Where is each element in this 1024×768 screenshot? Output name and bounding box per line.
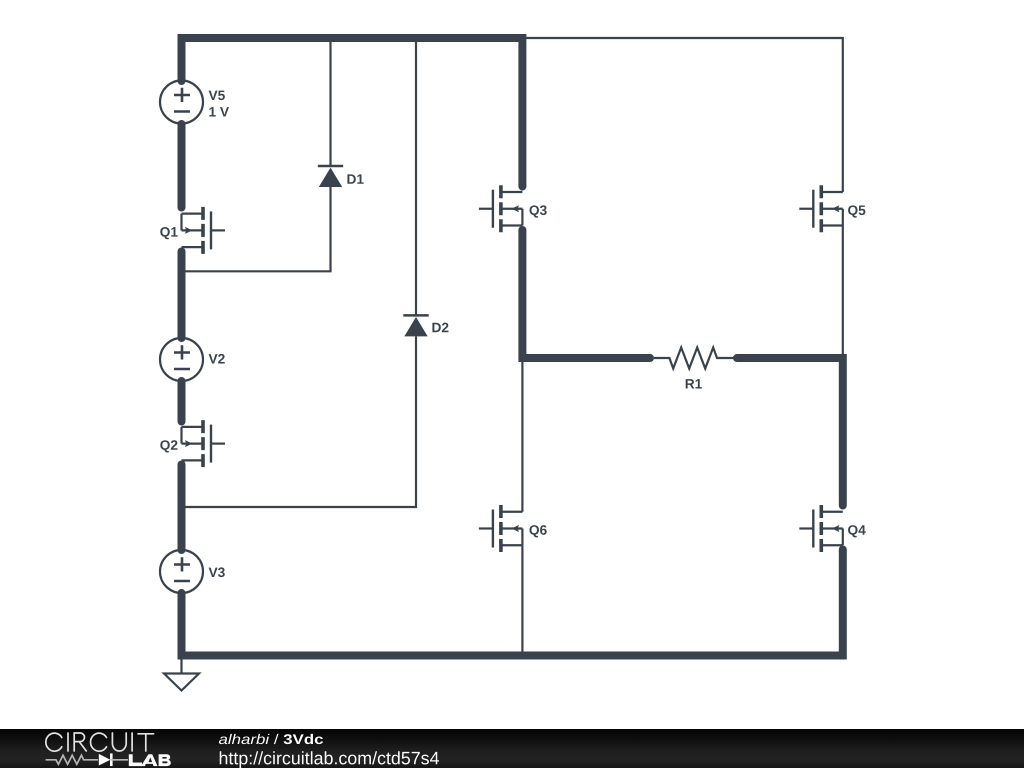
resistor R1 — [654, 348, 734, 389]
wire Q2 source to V3 top — [178, 465, 186, 551]
name label Q3 — [529, 205, 546, 217]
transistor Q6 — [479, 505, 547, 552]
wire Q5 source to R1 right corner — [842, 226, 844, 359]
polarity marks + / - — [174, 345, 190, 369]
wire Q3 source to R1 left terminal — [522, 230, 650, 358]
transistor Q2 — [160, 420, 225, 467]
name label V2 — [209, 354, 225, 364]
name label Q1 — [160, 227, 177, 239]
transistor Q1 — [160, 207, 225, 254]
wire V5 bottom to Q1 drain — [178, 124, 186, 208]
CircuitLab logo CIRCUIT — [46, 733, 154, 751]
wire top rail tap to D2 cathode — [415, 38, 417, 315]
voltage source V2 — [160, 338, 225, 381]
name label Q4 — [848, 525, 866, 537]
CircuitLab logo squiggle resistor — [46, 755, 98, 764]
transistor Q4 — [799, 505, 865, 552]
wire R1 right terminal to Q4 drain — [737, 358, 843, 506]
polarity marks + / - — [174, 557, 190, 581]
transistor Q3 — [479, 185, 547, 232]
footer bar — [0, 729, 1024, 768]
footer author / title — [219, 734, 323, 744]
voltage source V5 — [160, 81, 229, 124]
wire top rail tap to D1 cathode — [329, 38, 331, 166]
diode D1 — [318, 166, 364, 187]
wire D2 anode to Q2 source node — [182, 336, 417, 507]
name label Q5 — [848, 205, 865, 217]
name label Q6 — [529, 525, 546, 537]
name label V5 — [209, 91, 225, 101]
polarity marks + / - — [174, 88, 190, 112]
wire Q1 source to V2 top — [178, 252, 186, 339]
value label 1 V — [209, 107, 229, 116]
footer url — [220, 751, 439, 768]
wire V3 bottom to bottom rail to right corner — [182, 550, 843, 656]
ground — [164, 656, 199, 691]
name label Q2 — [160, 440, 177, 452]
CircuitLab logo diode — [99, 754, 111, 766]
name label R1 — [686, 379, 702, 388]
voltage source V3 — [160, 550, 225, 593]
name label V3 — [209, 567, 225, 577]
name label D2 — [432, 323, 448, 333]
name label D1 — [347, 174, 363, 183]
wire V2 bottom to Q2 drain — [178, 381, 186, 422]
wire R1 left corner to Q6 drain — [521, 358, 523, 512]
diode D2 — [403, 315, 448, 336]
transistor Q5 — [799, 185, 865, 232]
wire D1 anode to Q1 source node — [182, 187, 331, 271]
wire Q6 source to bottom rail — [521, 545, 523, 655]
wire top rail thick from V5 top to Q3 drain — [182, 38, 523, 187]
CircuitLab logo LAB — [129, 754, 171, 766]
wire top rail thin from Q3 drain node to Q5 drain — [522, 38, 842, 192]
